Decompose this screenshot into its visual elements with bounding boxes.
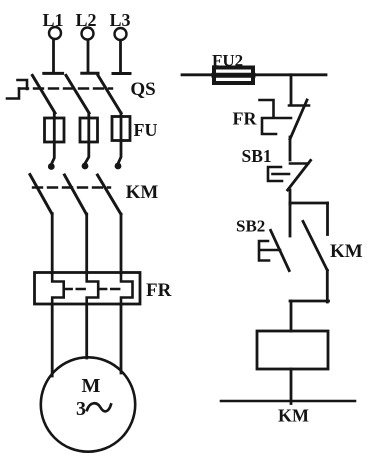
wire branch to coil xyxy=(290,301,293,331)
switch QS pole 3 fixed contact xyxy=(113,72,130,75)
svg-text:SB1: SB1 xyxy=(242,146,272,166)
wire SB1 to branch node xyxy=(289,190,292,204)
parallel branch bottom wire xyxy=(290,300,329,303)
motor tilde mark xyxy=(87,403,111,411)
SB2 upper wire xyxy=(289,203,292,236)
thermal relay FR box xyxy=(35,273,141,305)
svg-text:M: M xyxy=(82,375,101,397)
SB1 pushbutton cap xyxy=(268,167,282,181)
wire KM pole 2 to FR xyxy=(85,214,88,273)
svg-text:KM: KM xyxy=(126,182,159,203)
FR heater dashed link 2-3 xyxy=(98,288,121,290)
KM aux contact lower wire xyxy=(326,270,329,302)
contactor KM pole 2 blade xyxy=(65,175,87,214)
switch QS pole 1 blade xyxy=(32,75,55,113)
FR heater element 1 xyxy=(52,273,64,305)
terminal L1 xyxy=(49,27,61,39)
SB2 blade xyxy=(271,230,290,270)
FR NC contact bar xyxy=(289,104,309,107)
SB1 NC contact bar xyxy=(290,162,308,165)
wire KM pole 1 to FR xyxy=(51,214,54,273)
contactor coil KM box xyxy=(257,331,328,369)
QS interlink dashed line xyxy=(19,87,112,89)
svg-text:FU2: FU2 xyxy=(212,51,243,70)
svg-text:KM: KM xyxy=(330,241,363,262)
fuse FU pole 3 body xyxy=(112,117,130,141)
wire through fuse 2 xyxy=(85,113,89,163)
control circuit bottom bus wire xyxy=(221,400,355,403)
QS manual operating handle xyxy=(7,80,27,99)
svg-text:3: 3 xyxy=(76,398,86,420)
wire coil to bottom bus xyxy=(290,369,293,404)
wire L3 to QS xyxy=(119,41,122,72)
FR trip actuator hook xyxy=(260,100,292,134)
svg-text:SB2: SB2 xyxy=(236,217,265,236)
wire bus to FR contact xyxy=(290,75,293,104)
svg-text:KM: KM xyxy=(278,406,309,426)
FR heater element 3 xyxy=(121,273,133,305)
contactor KM pole 1 blade xyxy=(30,175,52,214)
contactor KM pole 2 upper terminal dot xyxy=(82,163,89,170)
FR heater dashed link 1-2 xyxy=(64,288,87,290)
switch QS pole 2 blade xyxy=(66,75,89,113)
wire FR to motor phase 2 xyxy=(85,304,88,358)
terminal L3 xyxy=(115,28,127,40)
contactor KM pole 3 blade xyxy=(98,175,121,214)
motor M circle xyxy=(41,357,135,451)
SB1 actuator dash xyxy=(273,173,290,176)
SB2 actuator dash xyxy=(261,249,280,252)
wire FR to motor phase 1 xyxy=(51,304,54,376)
wire through fuse 1 xyxy=(52,113,55,164)
svg-text:FU: FU xyxy=(134,120,158,140)
switch QS pole 1 fixed contact xyxy=(44,72,63,75)
fuse FU2 body xyxy=(214,68,253,84)
wire KM pole 3 to FR xyxy=(120,214,123,273)
KM interlink dashed line xyxy=(33,186,110,188)
wire FR to motor phase 3 xyxy=(120,304,123,373)
switch QS pole 2 fixed contact xyxy=(82,72,98,75)
wire L2 to QS xyxy=(87,40,90,72)
svg-text:FR: FR xyxy=(146,280,172,301)
contactor KM pole 3 upper terminal dot xyxy=(115,163,122,170)
fuse FU pole 1 body xyxy=(45,118,65,142)
SB1 blade xyxy=(288,160,311,190)
KM aux contact upper wire xyxy=(326,203,329,235)
wire FR contact to SB1 xyxy=(289,137,292,160)
fuse FU2 element line xyxy=(214,73,253,78)
FR NC contact blade xyxy=(290,100,307,139)
control circuit top bus wire xyxy=(182,73,326,76)
fuse FU pole 2 body xyxy=(80,118,98,142)
KM aux contact blade xyxy=(303,221,327,270)
FR heater element 2 xyxy=(87,273,99,305)
svg-text:QS: QS xyxy=(130,79,155,100)
parallel branch top wire xyxy=(290,202,328,205)
SB2 pushbutton cap xyxy=(259,241,269,261)
terminal L2 xyxy=(82,28,94,40)
svg-text:FR: FR xyxy=(233,109,258,129)
switch QS pole 3 blade xyxy=(98,75,121,113)
contactor KM pole 1 upper terminal dot xyxy=(48,163,55,170)
wire L1 to QS xyxy=(52,40,55,72)
wire through fuse 3 xyxy=(118,113,121,163)
